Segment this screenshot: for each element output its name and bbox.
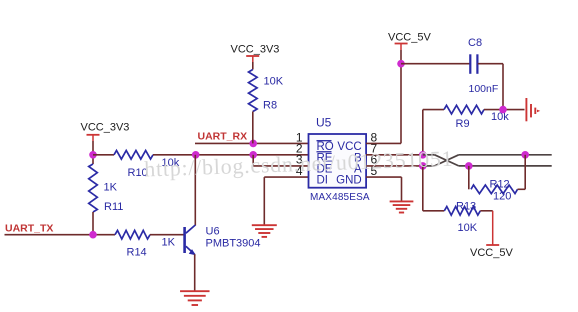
pin 7 number: [371, 141, 378, 155]
wire VCC_3V3 to R8: [252, 62, 254, 70]
svg-text:10K: 10K: [458, 222, 478, 234]
svg-text:1K: 1K: [162, 237, 176, 249]
svg-text:UART_RX: UART_RX: [198, 130, 248, 142]
junction R8/RO (253,143.5): [249, 140, 257, 148]
junction C8/R9 (503,110): [499, 106, 507, 114]
resistor R10: [114, 151, 180, 180]
wire Q1 emitter to ground: [194, 254, 196, 291]
junction VCC/C8 (401,64): [397, 60, 405, 68]
svg-text:100nF: 100nF: [469, 83, 499, 95]
pin 6 number: [371, 153, 378, 167]
wire UART_TX net: [5, 234, 116, 236]
wire crossover X of A/B lines: [423, 155, 459, 166]
net label UART_TX: [5, 222, 53, 234]
wire R8 to UART_RX line: [252, 112, 254, 144]
svg-text:C8: C8: [468, 37, 482, 49]
power flag VCC_5V (top right): [388, 32, 431, 50]
wire R14 to Q base: [150, 234, 184, 236]
pin 3 number: [296, 153, 303, 167]
wire VCC_5V down to pin 8: [400, 50, 402, 143]
svg-text:MAX485ESA: MAX485ESA: [310, 192, 370, 203]
ground below transistor: [180, 291, 210, 305]
junction B/R9 (423,155): [419, 151, 427, 159]
wire UART_RX to pin 1 (RO): [195, 142, 309, 144]
wire pin2 node to pin 3 (DE): [253, 155, 308, 166]
junction UART_TX / R11 (93,235): [89, 231, 97, 239]
svg-text:R8: R8: [263, 100, 277, 112]
wire A node down to R13: [423, 166, 445, 211]
svg-text:R14: R14: [127, 247, 147, 259]
wire 3V3 node to R10: [93, 154, 114, 156]
wire DI to ground: [264, 177, 308, 224]
watermark: [144, 146, 454, 182]
net label UART_RX: [198, 130, 248, 142]
junction A/R13 (423,166): [419, 162, 427, 170]
svg-text:R12: R12: [490, 178, 510, 190]
svg-text:R9: R9: [456, 118, 470, 130]
pin 4 number: [296, 164, 303, 178]
ground below pin 5: [390, 201, 414, 212]
svg-text:VCC_3V3: VCC_3V3: [231, 44, 280, 56]
svg-text:U6: U6: [206, 226, 220, 238]
resistor R8: [249, 70, 284, 112]
wire bus line top (to connector): [459, 154, 552, 156]
svg-text:DI: DI: [317, 175, 329, 187]
svg-text:VCC_5V: VCC_5V: [388, 32, 431, 44]
pin 8 number: [371, 130, 378, 144]
pin 1 number: [296, 130, 303, 144]
wire R13 to VCC_5V flag: [480, 211, 492, 245]
svg-text:VCC_3V3: VCC_3V3: [81, 122, 130, 134]
resistor R9: [444, 105, 509, 130]
capacitor C8: [468, 37, 498, 95]
wire pin 6 (A): [366, 165, 423, 167]
pin 5 number: [371, 164, 378, 178]
power flag VCC_3V3 (top left): [81, 122, 130, 142]
wire B-line up to R9: [423, 110, 444, 155]
wire pin 7 (B): [366, 154, 423, 156]
svg-text:GND: GND: [336, 175, 362, 187]
wire node down to Q1 collector: [194, 155, 196, 226]
op chip U5 MAX485ESA body: [309, 116, 370, 204]
svg-text:VCC_5V: VCC_5V: [470, 247, 513, 259]
wire R9 to earth: [484, 109, 525, 111]
power flag VCC_3V3 (top middle): [231, 44, 280, 63]
junction pin2/pin3 tie (253,155): [249, 151, 257, 159]
pin 2 number: [296, 141, 303, 155]
wire R10 to pin 2 (RE): [153, 154, 309, 156]
svg-text:R11: R11: [104, 201, 123, 213]
wire pin 8 (VCC): [366, 142, 401, 144]
wire bus line bottom (to connector): [459, 165, 552, 167]
ground below DI: [252, 225, 277, 237]
wire pin 5 (GND) to ground: [366, 177, 402, 201]
svg-text:1K: 1K: [104, 182, 118, 194]
resistor R13: [444, 200, 480, 234]
resistor R14: [115, 230, 176, 258]
svg-text:PMBT3904: PMBT3904: [206, 237, 261, 249]
svg-text:120: 120: [493, 191, 511, 203]
junction R12 right (525,155): [521, 151, 529, 159]
svg-text:10K: 10K: [264, 76, 284, 88]
junction RE/DE/collector node (196,155): [192, 151, 200, 159]
wire C8 right down to R9 node: [478, 64, 503, 110]
transistor U6 PMBT3904: [183, 225, 260, 255]
resistor R11: [89, 164, 124, 213]
node junction R10/R11 (93,155): [89, 151, 97, 159]
junction R12 left (469,166): [465, 162, 473, 170]
resistor R12 termination: [469, 155, 525, 203]
svg-text:U5: U5: [316, 116, 332, 130]
svg-text:R13: R13: [456, 200, 476, 212]
power flag VCC_5V (bottom right): [470, 245, 513, 259]
wire R11 to UART_TX line: [92, 212, 94, 235]
earth ground (rotated) right of R9: [526, 98, 540, 121]
svg-text:UART_TX: UART_TX: [5, 222, 53, 234]
wire VCC_3V3 to node (x=93): [92, 141, 94, 164]
svg-text:10k: 10k: [491, 111, 509, 123]
wire C8 left: [401, 63, 470, 65]
